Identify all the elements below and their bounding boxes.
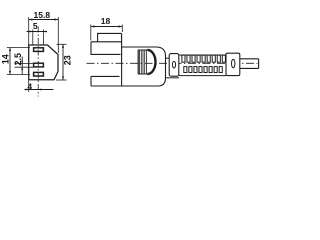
- svg-text:5: 5: [33, 21, 38, 31]
- svg-text:4: 4: [27, 82, 32, 92]
- svg-text:18: 18: [101, 16, 111, 26]
- svg-text:14: 14: [1, 54, 11, 64]
- svg-text:15.8: 15.8: [34, 10, 51, 20]
- svg-text:23: 23: [62, 55, 72, 65]
- svg-text:2.5: 2.5: [13, 53, 23, 66]
